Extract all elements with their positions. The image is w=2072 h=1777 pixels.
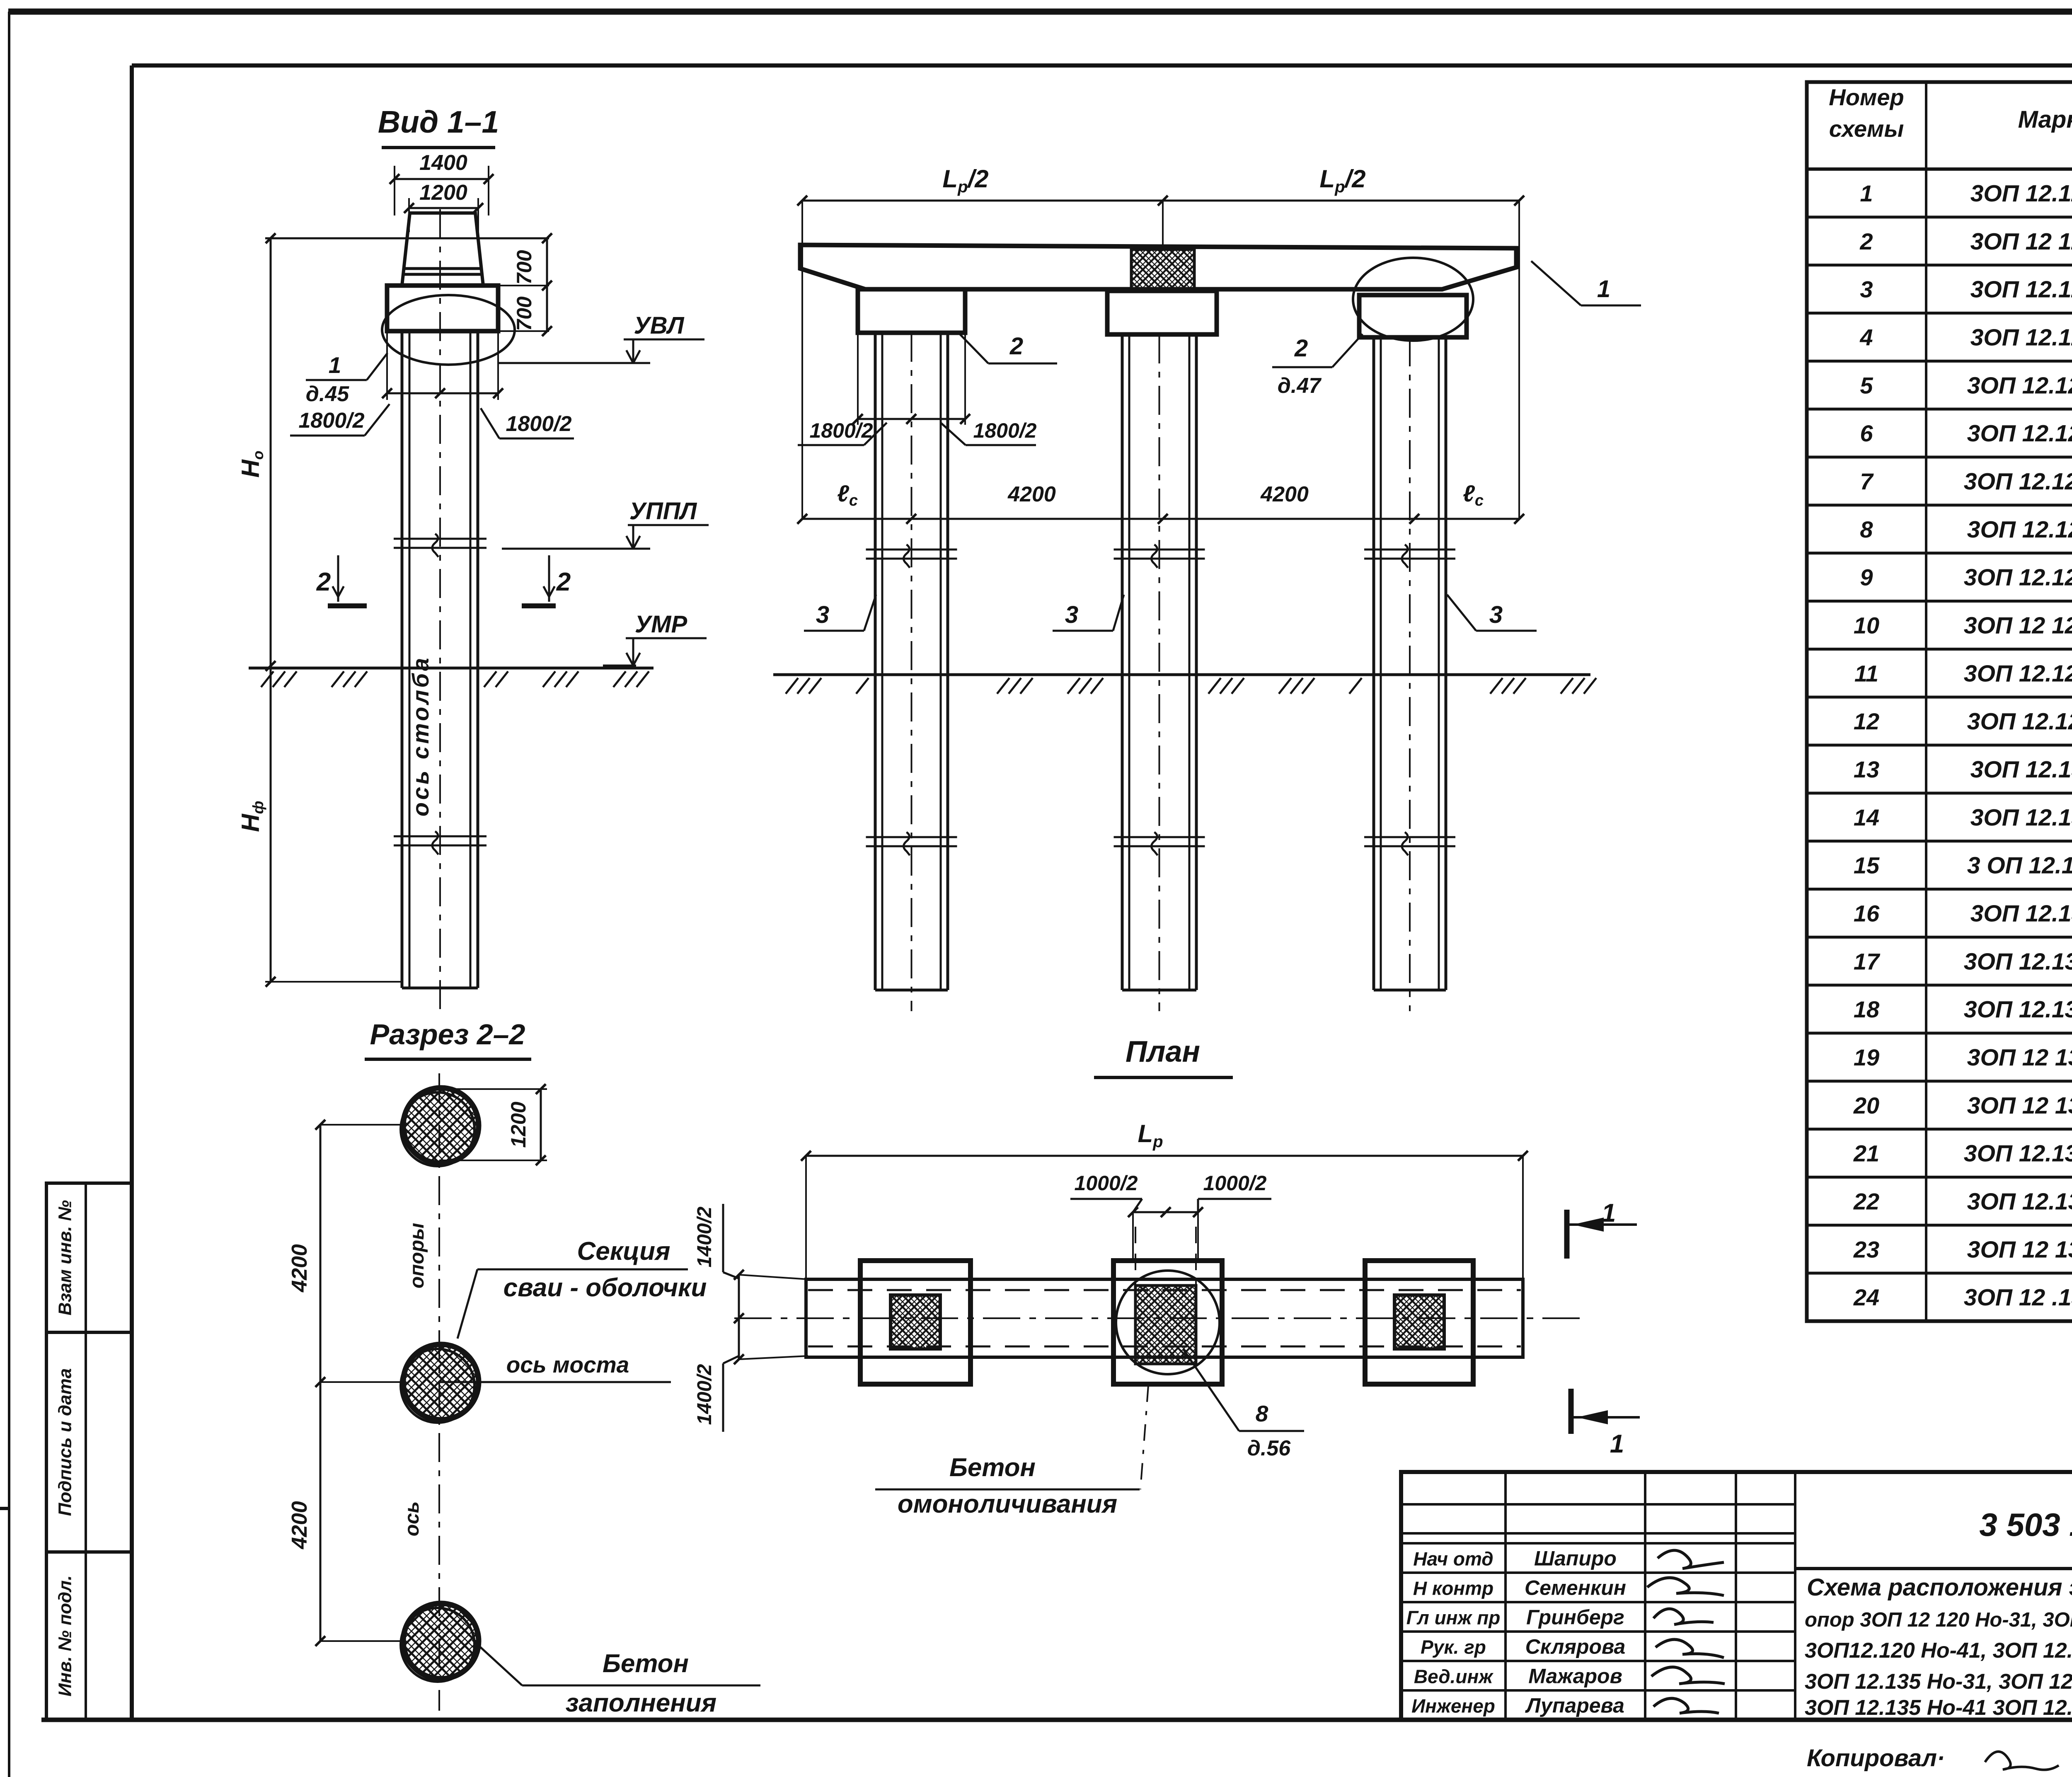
svg-text:1: 1 (329, 352, 341, 378)
svg-text:Гл инж пр: Гл инж пр (1406, 1607, 1501, 1629)
svg-text:д.47: д.47 (1278, 374, 1322, 398)
svg-text:3: 3 (1489, 601, 1503, 628)
column head trapezoid (402, 213, 483, 286)
axis of column (dash-dot) (439, 209, 441, 1011)
sheet left edge line (8, 12, 10, 1777)
svg-text:1800/2: 1800/2 (810, 419, 873, 442)
svg-text:Вед.инж: Вед.инж (1414, 1666, 1493, 1687)
svg-text:ось столба: ось столба (407, 656, 433, 816)
svg-text:3ОП 12.120.150 — 31: 3ОП 12.120.150 — 31 (1964, 564, 2072, 591)
svg-text:1200: 1200 (419, 181, 467, 205)
svg-text:Лупарева: Лупарева (1525, 1694, 1624, 1717)
svg-text:3: 3 (1860, 276, 1873, 303)
svg-text:22: 22 (1853, 1188, 1879, 1214)
svg-text:3ОП 12 135 120— 42: 3ОП 12 135 120— 42 (1967, 1092, 2072, 1119)
svg-text:Рук. гр: Рук. гр (1421, 1637, 1486, 1658)
ellipse detail mark on cap (382, 295, 515, 365)
svg-text:Склярова: Склярова (1525, 1635, 1626, 1658)
svg-text:Семенкин: Семенкин (1525, 1576, 1626, 1600)
svg-text:3: 3 (1065, 601, 1078, 628)
svg-text:3ОП 12.120.120— 32: 3ОП 12.120.120— 32 (1967, 420, 2072, 447)
svg-text:д.45: д.45 (306, 382, 350, 406)
svg-text:1: 1 (1610, 1430, 1624, 1458)
svg-text:Нач отд: Нач отд (1413, 1548, 1493, 1570)
svg-text:УВЛ: УВЛ (634, 312, 684, 339)
svg-text:1400/2: 1400/2 (694, 1206, 716, 1267)
svg-text:Копировал·: Копировал· (1807, 1745, 1945, 1772)
svg-text:Схема расположения элементов: Схема расположения элементов (1807, 1574, 2072, 1601)
svg-text:3ОП 12.135.150 — 31: 3ОП 12.135.150 — 31 (1964, 1140, 2072, 1167)
ось моста label + line (439, 1381, 671, 1383)
700/700 dims right of head (483, 285, 549, 286)
svg-text:1000/2: 1000/2 (1075, 1172, 1138, 1195)
svg-text:Номер: Номер (1829, 84, 1904, 110)
svg-text:21: 21 (1853, 1140, 1879, 1167)
svg-text:Вид 1–1: Вид 1–1 (378, 104, 499, 139)
svg-text:1: 1 (1597, 276, 1610, 303)
svg-text:13: 13 (1854, 756, 1879, 782)
svg-text:4200: 4200 (288, 1501, 312, 1549)
svg-text:8: 8 (1860, 516, 1873, 542)
svg-text:3ОП 12 120.90 — 32: 3ОП 12 120.90 — 32 (1970, 228, 2072, 255)
svg-text:15: 15 (1854, 852, 1880, 879)
svg-text:3ОП 12.135.90 — 42: 3ОП 12.135.90 — 42 (1970, 900, 2072, 927)
svg-text:2: 2 (556, 568, 571, 596)
svg-text:1800/2: 1800/2 (298, 409, 364, 433)
svg-text:3ОП 12.135 150— 32: 3ОП 12.135 150— 32 (1967, 1188, 2072, 1215)
svg-text:3ОП 12.135 90 — 32: 3ОП 12.135 90 — 32 (1970, 804, 2072, 831)
svg-text:Подпись и дата: Подпись и дата (55, 1368, 75, 1516)
svg-text:2: 2 (316, 568, 331, 596)
break marks on column (394, 538, 487, 540)
sheet top edge line (8, 9, 2072, 15)
svg-text:2: 2 (1294, 335, 1308, 362)
svg-text:9: 9 (1860, 564, 1873, 591)
piles elevation (double walls + axis) (874, 333, 877, 990)
fold mark left (0, 1507, 9, 1510)
svg-text:1000/2: 1000/2 (1203, 1172, 1267, 1195)
doc number (1795, 1567, 2072, 1570)
svg-text:1400/2: 1400/2 (694, 1364, 716, 1425)
svg-text:Гринберг: Гринберг (1526, 1606, 1624, 1629)
svg-text:6: 6 (1860, 420, 1873, 446)
pile caps elevation (858, 289, 965, 333)
pile shaft (double walls) (401, 331, 404, 988)
svg-text:23: 23 (1853, 1236, 1879, 1262)
svg-text:5: 5 (1860, 372, 1873, 398)
section marks 1-1 (plan) (1564, 1210, 1570, 1259)
Но dim vertical (270, 238, 272, 666)
svg-text:3ОП 12.120.120— 42: 3ОП 12.120.120— 42 (1967, 516, 2072, 543)
svg-text:3ОП 12 135.120— 41: 3ОП 12 135.120— 41 (1967, 1044, 2072, 1071)
svg-text:омоноличивания: омоноличивания (898, 1490, 1117, 1518)
svg-text:8: 8 (1256, 1401, 1268, 1426)
svg-text:3ОП 12.120 90 — 31: 3ОП 12.120 90 — 31 (1970, 180, 2072, 207)
svg-text:3ОП 12.120.150 — 41: 3ОП 12.120.150 — 41 (1964, 660, 2072, 687)
svg-text:3: 3 (816, 601, 829, 628)
svg-text:УМР: УМР (635, 611, 687, 638)
svg-text:3ОП 12.135 Но-31, 3ОП 12.135 Н: 3ОП 12.135 Но-31, 3ОП 12.135 Но-32, (1805, 1670, 2072, 1694)
svg-text:1: 1 (1602, 1199, 1616, 1227)
svg-text:3ОП 12.135 Но-41 3ОП 12.135.Н: 3ОП 12.135 Но-41 3ОП 12.135.Но-42 (1805, 1696, 2072, 1720)
svg-text:Взам инв. №: Взам инв. № (55, 1200, 75, 1315)
cap beam (насадка общая) (800, 245, 1516, 289)
svg-text:7: 7 (1860, 468, 1874, 494)
plan cap squares (860, 1261, 971, 1384)
ellipse detail mark right cap (1353, 258, 1473, 341)
svg-text:Марка опоры: Марка опоры (2018, 106, 2072, 133)
svg-text:заполнения: заполнения (566, 1689, 716, 1717)
svg-text:ось: ось (401, 1501, 423, 1537)
svg-text:19: 19 (1854, 1044, 1879, 1070)
svg-text:3ОП 12.120 120— 31: 3ОП 12.120 120— 31 (1967, 372, 2072, 399)
plan beam dashed inner lines (808, 1289, 1521, 1291)
plan bridge axis (734, 1317, 1586, 1319)
section circles (piles cross-sections) (403, 1088, 479, 1163)
svg-text:УППЛ: УППЛ (629, 498, 697, 525)
svg-text:700: 700 (513, 250, 536, 285)
svg-text:3ОП 12.120 90 — 42: 3ОП 12.120 90 — 42 (1970, 324, 2072, 351)
bottom dim line lc 4200 4200 lc (802, 518, 1519, 520)
svg-text:опор 3ОП 12 120 Но-31, 3ОП 12.: опор 3ОП 12 120 Но-31, 3ОП 12.120 Но-32 (1805, 1609, 2072, 1631)
svg-text:3ОП 12 120 150 — 32: 3ОП 12 120 150 — 32 (1964, 612, 2072, 639)
cap block (насадка) (387, 286, 498, 331)
svg-text:3ОП 12.135 120 — 32: 3ОП 12.135 120 — 32 (1964, 996, 2072, 1023)
svg-text:11: 11 (1854, 660, 1878, 686)
svg-text:Инженер: Инженер (1411, 1695, 1495, 1717)
svg-text:3 503 1– 69.1 20: 3 503 1– 69.1 20 (1979, 1506, 2072, 1543)
svg-text:3ОП 12.135 90 — 31: 3ОП 12.135 90 — 31 (1970, 756, 2072, 783)
svg-text:12: 12 (1854, 708, 1879, 734)
svg-text:2: 2 (1859, 228, 1873, 254)
monolithic joint hatched block on beam (1131, 249, 1194, 291)
svg-text:3ОП 12.120 150— 42: 3ОП 12.120 150— 42 (1967, 708, 2072, 735)
svg-text:Разрез 2–2: Разрез 2–2 (370, 1018, 525, 1051)
signature grid (1504, 1472, 1507, 1720)
svg-text:опоры: опоры (406, 1223, 428, 1288)
left sidebar boxes (46, 1183, 132, 1332)
svg-text:16: 16 (1854, 900, 1880, 926)
svg-text:4200: 4200 (1260, 482, 1309, 506)
ground line (вид 1-1) (249, 667, 654, 670)
svg-text:3ОП12.120 Но-41, 3ОП 12.120.Но: 3ОП12.120 Но-41, 3ОП 12.120.Но-42 , (1805, 1639, 2072, 1663)
svg-text:Бетон: Бетон (949, 1453, 1036, 1482)
svg-text:700: 700 (513, 296, 536, 331)
signatures squiggles (1658, 1550, 1724, 1569)
svg-text:План: План (1126, 1035, 1200, 1068)
title block outline (1401, 1472, 2072, 1720)
svg-text:4: 4 (1859, 324, 1873, 350)
svg-text:3ОП 12 .135 150— 42: 3ОП 12 .135 150— 42 (1964, 1284, 2072, 1311)
elevation: dim line Lp/2 + Lp/2 (802, 200, 1519, 202)
svg-text:24: 24 (1853, 1284, 1879, 1310)
svg-text:1: 1 (1860, 180, 1873, 206)
dims 4200 x2 (section) (320, 1125, 322, 1641)
svg-text:1800/2: 1800/2 (973, 419, 1037, 442)
plan beam outline (806, 1279, 1523, 1357)
svg-text:3ОП 12.120.120 — 41: 3ОП 12.120.120 — 41 (1964, 468, 2072, 495)
svg-text:1800/2: 1800/2 (506, 412, 571, 436)
svg-text:3ОП 12 135 150— 41: 3ОП 12 135 150— 41 (1967, 1236, 2072, 1263)
plan hatched pile squares (891, 1295, 940, 1349)
dim 1800/2 under cap (вид) (386, 331, 388, 400)
dim 1200 (circle dia) (439, 1088, 547, 1090)
svg-text:схемы: схемы (1829, 116, 1904, 142)
plan middle joint: circle + hatched block (1116, 1271, 1220, 1374)
svg-text:ось моста: ось моста (506, 1352, 629, 1378)
table: опоры schedule (1807, 82, 2072, 1321)
svg-text:10: 10 (1854, 612, 1879, 638)
ground line (elevation) (773, 673, 1590, 676)
svg-text:Шапиро: Шапиро (1534, 1547, 1617, 1570)
svg-text:Секция: Секция (577, 1237, 670, 1266)
svg-text:1200: 1200 (507, 1102, 530, 1148)
svg-text:14: 14 (1854, 804, 1879, 830)
drawing frame (130, 65, 134, 1720)
svg-text:Бетон: Бетон (603, 1649, 689, 1678)
svg-text:18: 18 (1854, 996, 1880, 1022)
svg-text:Н контр: Н контр (1413, 1578, 1493, 1599)
section axis vertical (438, 1073, 440, 1711)
svg-text:2: 2 (1009, 333, 1023, 360)
table rows (1807, 215, 2072, 218)
dim 1800/2 1800/2 (elevation left pile) (857, 333, 859, 425)
svg-text:д.56: д.56 (1247, 1436, 1291, 1460)
svg-text:1400: 1400 (419, 151, 467, 175)
svg-text:3ОП 12.135 120 — 31: 3ОП 12.135 120 — 31 (1964, 948, 2072, 975)
svg-text:3ОП 12.120.90 — 41: 3ОП 12.120.90 — 41 (1970, 276, 2072, 303)
svg-text:3 ОП 12.135.90 — 41: 3 ОП 12.135.90 — 41 (1967, 852, 2072, 879)
svg-text:4200: 4200 (288, 1244, 312, 1293)
svg-text:сваи - оболочки: сваи - оболочки (503, 1273, 707, 1302)
svg-text:17: 17 (1854, 948, 1881, 974)
svg-text:20: 20 (1853, 1092, 1879, 1118)
svg-text:Мажаров: Мажаров (1528, 1665, 1622, 1688)
Нф dim vertical (270, 666, 272, 982)
svg-text:Инв. № подл.: Инв. № подл. (55, 1575, 75, 1696)
svg-text:4200: 4200 (1007, 482, 1056, 506)
